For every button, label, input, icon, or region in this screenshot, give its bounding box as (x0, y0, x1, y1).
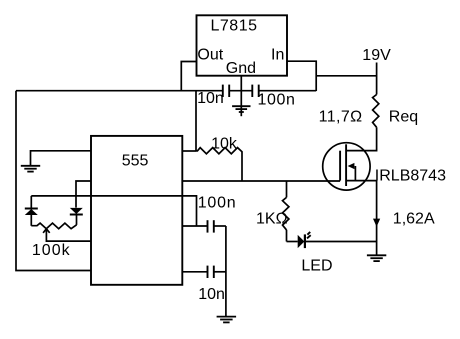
wire In pin to right (287, 61, 316, 91)
regulator U2 L7815 box (197, 15, 288, 75)
LED D3 triangle (298, 235, 305, 248)
svg-text:1,62A: 1,62A (393, 211, 435, 228)
transistor Q1 IRLB8743 circle (323, 143, 370, 190)
wire D2 to pot (76, 215, 78, 225)
svg-text:555: 555 (122, 152, 149, 169)
capacitor C4 10n plates (208, 266, 214, 278)
svg-text:100k: 100k (32, 242, 71, 259)
wire 1K to LED (286, 230, 288, 242)
transistor Q1 gate bar (339, 151, 341, 181)
svg-text:1KΩ: 1KΩ (256, 211, 288, 228)
capacitor C2 100n (top) (252, 85, 258, 97)
wire down to diode D1 (30, 196, 32, 208)
capacitor C3 100n plates (208, 220, 214, 232)
timer U1 555 box (91, 136, 182, 285)
transistor Q1 channel bar (345, 144, 347, 186)
wire rail mid segment (229, 90, 252, 92)
svg-text:Out: Out (197, 47, 223, 64)
wire gate rail from 555 pin3 (182, 180, 340, 182)
svg-text:10k: 10k (211, 136, 238, 153)
svg-text:IRLB8743: IRLB8743 (375, 167, 446, 184)
wire drain from Req (346, 127, 377, 150)
node 19V stub (376, 63, 378, 95)
wire source (346, 181, 377, 242)
diode D2 cathode bar (70, 214, 83, 216)
wire LED to source node (305, 241, 377, 243)
ground (555 pin1) (21, 166, 40, 172)
ground (regulator Gnd) (232, 106, 250, 112)
resistor Req zigzag (373, 95, 379, 128)
wire crossing (pin6 net) (31, 196, 196, 226)
wire C4 to ground stem (214, 271, 226, 273)
wire Out pin to left rail (181, 62, 196, 91)
wire Gnd pin stem (240, 76, 242, 117)
wire 555 pin right to 10n cap (182, 271, 207, 273)
capacitor C1 10n (top) (223, 85, 229, 97)
resistor R1 10k zigzag (196, 148, 242, 154)
resistor R2 1K zigzag (283, 197, 289, 230)
svg-text:11,7Ω: 11,7Ω (319, 109, 363, 126)
wire 555 pin2 to diode D2 (76, 181, 91, 208)
wire left rail down to 555 (16, 91, 91, 271)
potentiometer wiper arrow (43, 229, 50, 233)
transistor Q1 body arrow (354, 166, 356, 181)
svg-text:100n: 100n (198, 194, 237, 211)
svg-text:100n: 100n (258, 92, 296, 109)
wire 555 pin1 to ground (31, 151, 92, 166)
wire D1 to pot (30, 215, 32, 226)
svg-text:In: In (271, 47, 284, 64)
diode D1 triangle (up) (25, 209, 38, 215)
ground (source) (367, 255, 386, 261)
wire C3 to ground stem (214, 225, 226, 227)
svg-text:Req: Req (389, 109, 418, 126)
ground (caps) (217, 317, 237, 323)
svg-text:Gnd: Gnd (226, 60, 256, 77)
current arrow 1,62A (373, 219, 380, 227)
wire LED row (287, 241, 298, 243)
LED D3 cathode bar (304, 234, 306, 248)
resistor R2 1K wire from gate rail (286, 181, 288, 197)
wire caps ground stem (225, 226, 227, 316)
potentiometer R3 100k zigzag (31, 223, 76, 229)
svg-text:LED: LED (301, 257, 332, 274)
svg-text:19V: 19V (362, 47, 391, 64)
diode D2 triangle (down) (70, 208, 83, 214)
wire 19V rail (316, 75, 376, 77)
LED light dashes (307, 232, 310, 235)
svg-text:10n: 10n (197, 90, 224, 107)
wire wiper to 555 (46, 229, 91, 241)
svg-text:10n: 10n (198, 286, 225, 303)
wire rail down to 10k (195, 91, 197, 151)
wire to ground (source) (376, 242, 378, 255)
wire 555 pin right to 100n cap (182, 225, 207, 227)
svg-text:L7815: L7815 (211, 17, 258, 34)
wire top rail (Out net) (16, 90, 223, 92)
wire 555 discharge pin to 10k (182, 150, 196, 152)
diode D1 cathode bar (25, 208, 38, 210)
wire 10k to gate rail (241, 151, 243, 181)
wire rail right segment (259, 90, 317, 92)
